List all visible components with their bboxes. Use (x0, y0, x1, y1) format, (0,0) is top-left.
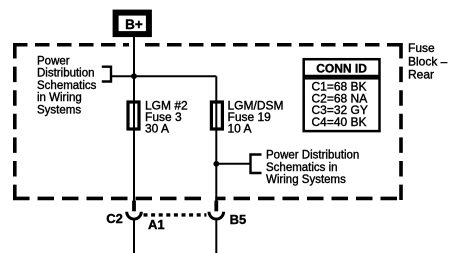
junction node at B+ feed (131, 73, 137, 79)
svg-text:Block –: Block – (408, 54, 448, 68)
svg-text:Systems: Systems (37, 105, 81, 117)
fuse block dashed outline (bottom border) (13, 197, 403, 201)
connector C2 socket (female arc) (127, 212, 142, 219)
power feed box B+ (116, 13, 149, 34)
connector B5 pin (male) (214, 201, 218, 212)
svg-text:B+: B+ (125, 17, 143, 32)
label: LGM/DSM Fuse 19 10 A (228, 98, 284, 135)
svg-text:Distribution: Distribution (37, 68, 95, 80)
svg-text:10 A: 10 A (228, 122, 252, 136)
svg-text:Wiring Systems: Wiring Systems (266, 174, 346, 186)
wire: main horizontal feed from left bracket to fuse 19 drop (111, 75, 216, 77)
dotted harness link A1 between C2 and B5 (144, 213, 207, 216)
CONN ID table header (304, 59, 380, 76)
wire: junction to right bracket (216, 163, 250, 165)
fuse F3 (LGM #2, 30 A) (128, 102, 139, 129)
junction node on fuse 19 branch (213, 161, 219, 167)
dash gap where B+ wire crosses top border (129, 43, 139, 47)
wire: drop to fuse 19 and on to connector B5 pin (215, 76, 217, 201)
svg-text:Power Distribution: Power Distribution (266, 150, 359, 162)
label A1 (148, 217, 165, 232)
bracket to right note (251, 155, 262, 174)
svg-text:Rear: Rear (408, 68, 434, 82)
note: Power Distribution Schematics in Wiring Systems (right) (266, 150, 359, 186)
svg-text:A1: A1 (148, 217, 165, 232)
svg-text:CONN ID: CONN ID (316, 61, 367, 75)
CONN ID rows (312, 79, 368, 129)
wire: B+ down to fuse 3 and on to connector C2 pin (133, 37, 135, 202)
label B5 (230, 212, 247, 227)
svg-text:Fuse: Fuse (408, 41, 435, 55)
svg-text:in Wiring: in Wiring (37, 92, 82, 104)
bracket to left note (102, 67, 111, 82)
wire: below connector B5 (215, 219, 217, 253)
svg-text:30 A: 30 A (145, 122, 169, 136)
CONN ID table body (304, 78, 380, 131)
fuse block dashed outline (right border) (399, 43, 403, 200)
svg-text:B5: B5 (230, 212, 247, 227)
fuse F19 (LGM/DSM, 10 A) (211, 102, 222, 129)
fuse block dashed outline (top border) (13, 43, 403, 47)
label: Fuse Block - Rear (408, 41, 448, 81)
svg-text:Schematics in: Schematics in (266, 162, 338, 174)
svg-text:Schematics: Schematics (37, 80, 97, 92)
connector B5 socket (female arc) (209, 212, 224, 219)
connector C2 pin (male) (132, 201, 136, 212)
fuse block dashed outline (left border) (13, 43, 17, 200)
wire: below connector C2 (133, 219, 135, 253)
dash gap left of connector B5 pin on bottom border (207, 196, 215, 200)
svg-text:C4=40 BK: C4=40 BK (312, 115, 367, 129)
note: Power Distribution Schematics in Wiring Systems (left) (37, 55, 97, 116)
svg-text:Power: Power (37, 55, 70, 67)
svg-text:C2: C2 (106, 211, 123, 226)
label C2 (106, 211, 123, 226)
label: LGM #2 Fuse 3 30 A (145, 98, 188, 135)
